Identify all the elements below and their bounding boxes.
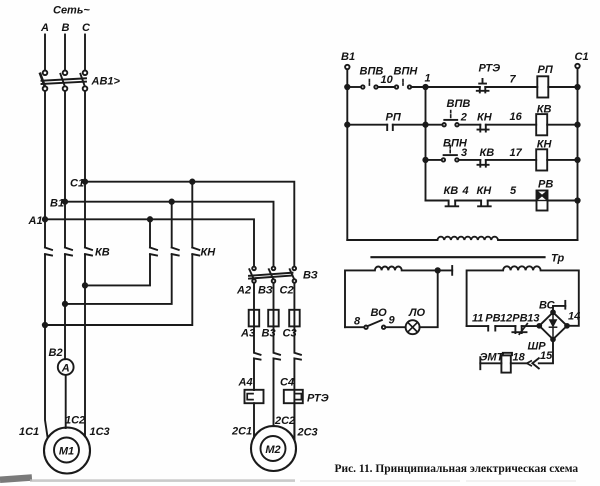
svg-text:9: 9: [389, 315, 396, 327]
svg-text:12: 12: [500, 312, 512, 324]
wire rung1 mid3: [485, 86, 537, 88]
wire rectifier bottom left: [467, 325, 489, 327]
junction dot phase B reverse: [63, 302, 67, 306]
wire phase B breaker to KV contact: [64, 91, 66, 247]
contact KV (NO) rung4: [446, 201, 459, 207]
svg-text:А: А: [61, 362, 70, 374]
svg-text:Тр: Тр: [551, 253, 564, 265]
contact KV (NC) rung3: [478, 160, 489, 167]
svg-text:В1: В1: [50, 198, 64, 210]
svg-text:17: 17: [510, 147, 523, 159]
wire rung4 right: [548, 200, 578, 202]
svg-text:А3: А3: [240, 328, 255, 340]
svg-text:ЛО: ЛО: [408, 307, 426, 319]
push button VPN: [442, 146, 459, 162]
wire node 12: [495, 325, 515, 327]
svg-text:ВЗ: ВЗ: [258, 285, 273, 297]
wire bridge top tap: [553, 306, 565, 312]
svg-text:Рис. 11. Принципиальная электр: Рис. 11. Принципиальная электрическая сх…: [335, 463, 579, 475]
timed contact RV (node 12-13): [512, 324, 527, 335]
wire KN drop A1: [149, 219, 151, 247]
svg-text:АВ1>: АВ1>: [91, 76, 121, 88]
svg-text:КН: КН: [477, 111, 493, 123]
wire phase A to motor M1: [45, 254, 48, 437]
wire rung1 mid1: [378, 86, 395, 88]
terminal B1: [345, 65, 349, 69]
wire rung4 mid1: [455, 200, 481, 202]
svg-text:С2: С2: [280, 285, 294, 297]
wire rung4 left: [426, 200, 449, 202]
wire phase A2 through fuse: [254, 283, 261, 355]
svg-text:С: С: [82, 22, 91, 34]
wire bridge bottom to connector: [539, 339, 553, 363]
wire rung3 left: [426, 159, 442, 161]
svg-text:КН: КН: [537, 138, 553, 150]
junction dot rung1 right: [575, 85, 579, 89]
wire lighting bottom left: [345, 326, 364, 328]
svg-text:В1: В1: [341, 51, 355, 63]
svg-text:В: В: [62, 22, 70, 34]
wire rung3 mid2: [486, 159, 536, 161]
svg-text:2С3: 2С3: [297, 427, 318, 439]
wire rung2 mid3: [486, 124, 536, 126]
terminal T-bar EMT: [479, 357, 481, 369]
wire phase A breaker to KV contact: [44, 91, 46, 247]
motor M1: [44, 428, 90, 474]
transformer Tr core: [372, 256, 545, 258]
wire KN drop C1: [191, 182, 193, 248]
wire KN reverse link to phase B: [65, 254, 172, 304]
junction dot node 1: [423, 85, 427, 89]
wire left rail: [346, 70, 348, 240]
wire phase B to breaker: [64, 35, 66, 71]
svg-text:ЭМТ: ЭМТ: [480, 351, 505, 363]
wire bus A1 to switch V3: [45, 219, 254, 266]
wire rung1 left: [347, 86, 361, 88]
wire rung3 mid1: [459, 159, 480, 161]
wire connector to EMT: [511, 362, 527, 364]
motor M2: [251, 426, 296, 471]
svg-text:8: 8: [354, 315, 361, 327]
wire C4 to motor M2: [293, 403, 295, 440]
wire EMT left terminal: [480, 362, 501, 364]
junction dot rung1 left: [345, 85, 349, 89]
wire phase B to ammeter: [64, 254, 66, 359]
contactor coil KN: [536, 149, 547, 170]
wire phase C2 through fuse: [294, 283, 301, 355]
thermal contact RTE: [477, 79, 489, 92]
wire ammeter to motor M1: [65, 375, 67, 428]
tap T-bar lighting: [451, 266, 453, 275]
contact RP: [387, 125, 393, 130]
thermal element A4: [245, 390, 264, 403]
wire rung2 mid2: [459, 124, 480, 126]
junction dot rung2 left: [345, 123, 349, 127]
svg-text:14: 14: [568, 311, 580, 323]
svg-text:18: 18: [513, 351, 526, 363]
svg-text:А1: А1: [28, 215, 43, 227]
svg-text:13: 13: [527, 312, 539, 324]
svg-text:А2: А2: [236, 285, 251, 297]
contactor coil KV: [536, 114, 547, 135]
wire phase B3 through fuse: [274, 283, 281, 355]
contact KN (NO) rung4: [478, 201, 491, 207]
junction dot phase C reverse: [83, 283, 87, 287]
svg-text:3: 3: [461, 147, 467, 159]
wire rung2 left: [347, 124, 387, 126]
time relay coil RV: [537, 191, 548, 211]
junction dot rung2 right: [575, 123, 579, 127]
fuse A3: [249, 310, 260, 327]
svg-text:2С2: 2С2: [274, 415, 295, 427]
wire rung1 right: [548, 86, 577, 88]
contactor KV main contacts: [45, 248, 92, 256]
ammeter B2: [58, 359, 74, 375]
svg-text:С3: С3: [283, 328, 297, 340]
wire phase C breaker to KV contact: [84, 91, 86, 247]
wire node 13 to bridge: [522, 325, 540, 327]
limit switch VPN: [395, 80, 411, 89]
fuse C3: [289, 310, 300, 327]
wire rung1 mid2: [412, 86, 480, 88]
junction dot rung3 right: [575, 158, 579, 162]
svg-text:РВ: РВ: [512, 312, 527, 324]
junction dot rung4 right: [575, 198, 579, 202]
svg-text:КН: КН: [477, 185, 493, 197]
svg-text:РВ: РВ: [538, 178, 553, 190]
lamp LO: [406, 320, 420, 334]
circuit breaker AB1 (3-pole): [40, 71, 87, 91]
svg-text:РВ: РВ: [485, 312, 500, 324]
svg-text:2: 2: [460, 111, 467, 123]
svg-text:КН: КН: [201, 247, 217, 259]
wire vertical link node1: [425, 87, 427, 201]
svg-text:М1: М1: [59, 445, 74, 457]
wire phase C to breaker: [84, 35, 86, 71]
switch VO: [364, 320, 385, 329]
wire VO to lamp: [386, 326, 406, 328]
svg-text:С1: С1: [575, 51, 589, 63]
svg-text:16: 16: [510, 111, 523, 123]
push button VPV: [442, 111, 458, 127]
wire rung4 mid2: [488, 200, 537, 202]
electromagnet coil EMT: [501, 353, 512, 373]
switch V3 (3-pole): [249, 267, 296, 283]
transformer secondary winding (rectifier circuit): [467, 266, 579, 326]
svg-text:А: А: [40, 22, 49, 34]
wire rung2 right: [547, 124, 577, 126]
svg-text:ВПН: ВПН: [394, 66, 419, 78]
contactor contacts to motor M2 (lower): [254, 358, 301, 440]
wire KN drop B1: [171, 202, 173, 248]
svg-text:РП: РП: [538, 64, 554, 76]
junction dot A1-KN: [148, 217, 152, 221]
wire rung2 mid1: [393, 124, 442, 126]
limit switch VPV: [361, 80, 378, 89]
svg-text:ВО: ВО: [371, 307, 388, 319]
svg-text:Сеть~: Сеть~: [53, 5, 90, 17]
svg-text:С1: С1: [70, 178, 84, 190]
svg-text:М2: М2: [265, 444, 280, 456]
wire bus B1 to switch V3: [65, 202, 274, 267]
svg-text:КВ: КВ: [444, 185, 459, 197]
contact RV (node 11-12): [488, 326, 495, 330]
svg-text:В2: В2: [49, 347, 63, 359]
wire bus C1 to switch V3: [85, 182, 294, 267]
svg-text:В3: В3: [262, 328, 276, 340]
svg-text:15: 15: [540, 350, 553, 362]
junction dot B1-KN: [170, 200, 174, 204]
contactor KN main contacts: [150, 248, 199, 256]
wire rung3 right: [547, 159, 577, 161]
connector ShR: [527, 358, 539, 368]
junction dot B1: [63, 200, 67, 204]
junction dot lighting tap: [436, 268, 440, 272]
wire KN reverse link to phase C: [85, 254, 150, 285]
svg-text:1: 1: [425, 73, 431, 85]
junction dot A1: [43, 217, 47, 221]
wire phase A to breaker: [44, 35, 46, 71]
wire lighting right branch: [420, 270, 438, 327]
svg-text:КВ: КВ: [480, 147, 495, 159]
svg-text:2С1: 2С1: [231, 426, 252, 438]
svg-text:ВЗ: ВЗ: [303, 270, 318, 282]
svg-text:А4: А4: [238, 377, 253, 389]
svg-text:1С3: 1С3: [90, 426, 110, 438]
svg-text:7: 7: [510, 74, 517, 86]
wire bottom rail with transformer Tr primary winding: [347, 237, 577, 240]
junction dot phase A reverse: [43, 323, 47, 327]
svg-text:ВПВ: ВПВ: [447, 98, 471, 110]
fuse B3: [268, 310, 279, 327]
svg-text:5: 5: [510, 185, 517, 197]
svg-text:4: 4: [462, 185, 469, 197]
svg-text:КВ: КВ: [95, 247, 110, 259]
svg-text:РТЭ: РТЭ: [307, 393, 329, 405]
thermal element C4: [284, 390, 303, 403]
wire right rail: [577, 69, 579, 240]
svg-text:11: 11: [472, 312, 483, 324]
junction dot C1: [83, 180, 87, 184]
junction dot node rung2: [423, 123, 427, 127]
terminal C1: [575, 64, 579, 68]
svg-text:1С1: 1С1: [19, 426, 39, 438]
wire KN reverse link to phase A: [45, 254, 192, 325]
wire A4 to motor M2: [253, 403, 255, 437]
wire phase C to motor M1: [84, 254, 86, 436]
tap T-bar rectifier: [564, 301, 566, 309]
rectifier bridge VS: [537, 310, 569, 341]
svg-text:10: 10: [381, 74, 394, 86]
svg-text:С4: С4: [280, 377, 294, 389]
contact KN (NC) rung2: [478, 125, 489, 132]
svg-text:РП: РП: [386, 111, 402, 123]
transformer secondary winding (lighting circuit): [345, 266, 452, 327]
junction dot C1-KN: [190, 180, 194, 184]
svg-text:РТЭ: РТЭ: [479, 63, 501, 75]
svg-text:КВ: КВ: [537, 103, 552, 115]
relay coil RP: [537, 76, 548, 97]
junction dot rung3 node: [423, 158, 427, 162]
svg-text:1С2: 1С2: [65, 414, 85, 426]
